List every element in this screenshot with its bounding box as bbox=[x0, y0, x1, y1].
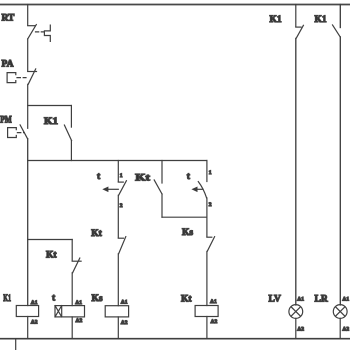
svg-text:A2: A2 bbox=[121, 320, 128, 326]
svg-text:PA: PA bbox=[2, 60, 14, 70]
contact Kt (NC) on t-coil branch bbox=[72, 258, 81, 273]
wire: seal-in branch drop bbox=[70, 106, 72, 128]
RT thermal element actuator bbox=[36, 25, 51, 41]
svg-text:t: t bbox=[97, 172, 101, 182]
svg-text:Ks: Ks bbox=[92, 294, 103, 304]
wire LR lamp to bottom rail bbox=[339, 318, 341, 338]
wire: branch drop to timed contact t (left) bbox=[117, 161, 119, 182]
contact Kt (NC) on Ks branch bbox=[118, 237, 126, 254]
PA manual actuator bbox=[7, 73, 26, 83]
contact Ks (NC) bbox=[207, 237, 215, 252]
svg-text:Ks: Ks bbox=[182, 228, 193, 238]
wire: branch to time relay coil t bbox=[28, 239, 72, 241]
wire RT to PA bbox=[27, 39, 29, 71]
svg-text:A1: A1 bbox=[121, 300, 128, 306]
svg-text:A1: A1 bbox=[75, 300, 82, 306]
wire: seal-in branch to bus bbox=[70, 141, 72, 161]
svg-text:LV: LV bbox=[269, 295, 281, 305]
wire K1 coil to bottom rail bbox=[27, 317, 29, 339]
timed contact t left (NC, delay) bbox=[102, 181, 126, 196]
wire PA to PM bbox=[27, 84, 29, 128]
contact Kt middle (NO) bbox=[154, 180, 162, 194]
wire stub below bottom rail bbox=[15, 339, 17, 350]
contact K1 seal-in (NO) bbox=[64, 125, 71, 141]
wire: LV branch from top rail bbox=[295, 5, 297, 27]
svg-text:PM: PM bbox=[0, 116, 12, 126]
wire Kt middle down bbox=[161, 194, 163, 217]
svg-text:A2: A2 bbox=[31, 319, 38, 325]
svg-text:A2: A2 bbox=[76, 318, 83, 324]
wire: left branch from top rail to RT bbox=[27, 5, 29, 26]
wire Kt contact to Ks coil bbox=[117, 254, 119, 306]
thermal contact RT (NC) bbox=[28, 25, 37, 39]
svg-text:K1: K1 bbox=[44, 117, 58, 127]
coil Kt bbox=[195, 306, 218, 317]
wire t right to Ks contact bbox=[206, 198, 208, 237]
svg-text:1: 1 bbox=[209, 170, 212, 176]
contact K1 (NC) on LV branch bbox=[296, 25, 304, 38]
K1 coil bbox=[16, 306, 38, 317]
wire Ks contact to Kt coil bbox=[206, 251, 208, 305]
wire: horizontal joining Kt branch to t branch bbox=[162, 216, 207, 218]
svg-text:A1: A1 bbox=[342, 296, 349, 302]
contact K1 (NO) on LR branch bbox=[333, 25, 341, 37]
svg-text:Kt: Kt bbox=[181, 295, 192, 305]
wire t coil to bottom rail bbox=[71, 317, 73, 339]
timed contact t right (NO, delay) bbox=[191, 182, 206, 198]
svg-text:A1: A1 bbox=[297, 296, 304, 302]
wire: LR branch from top rail bbox=[339, 5, 341, 28]
svg-text:A2: A2 bbox=[297, 326, 304, 332]
wire: branch drop to timed contact t (right) bbox=[206, 161, 208, 182]
svg-text:t: t bbox=[187, 172, 191, 182]
svg-text:A2: A2 bbox=[211, 319, 218, 325]
wire K1 contact to LR lamp bbox=[339, 37, 341, 305]
svg-text:Kt: Kt bbox=[46, 251, 57, 261]
svg-text:t: t bbox=[52, 294, 56, 304]
svg-text:A1: A1 bbox=[210, 299, 217, 305]
svg-text:Kt: Kt bbox=[135, 174, 151, 184]
bottom supply rail bbox=[0, 338, 350, 340]
lamp LR bbox=[333, 305, 347, 319]
wire drop to Kt NC contact bbox=[71, 240, 73, 261]
wire: horizontal node bus bbox=[28, 160, 207, 162]
svg-text:K1: K1 bbox=[3, 294, 11, 304]
pushbutton contact PM (NO) bbox=[20, 125, 28, 139]
svg-text:A2: A2 bbox=[342, 326, 349, 332]
wire: branch drop to contact Kt middle bbox=[161, 161, 163, 184]
wire K1 contact to LV lamp bbox=[295, 38, 297, 305]
pushbutton contact PA (NC) bbox=[28, 69, 37, 84]
wire PM down the left rail to K1 coil bbox=[27, 139, 29, 306]
wire: seal-in branch top bbox=[28, 105, 72, 107]
svg-text:K1: K1 bbox=[315, 15, 327, 25]
wire Ks coil to bottom rail bbox=[117, 317, 119, 339]
wire Kt contact to t coil bbox=[71, 273, 73, 306]
coil t (time relay) bbox=[55, 306, 85, 317]
svg-text:1: 1 bbox=[120, 173, 123, 179]
top supply rail bbox=[0, 4, 350, 6]
wire LV lamp to bottom rail bbox=[295, 318, 297, 338]
svg-text:K1: K1 bbox=[270, 15, 282, 25]
lamp LV bbox=[289, 305, 303, 319]
svg-text:A1: A1 bbox=[31, 300, 38, 306]
svg-text:2: 2 bbox=[120, 203, 123, 209]
wire Kt coil to bottom rail bbox=[206, 317, 208, 339]
PM manual actuator bbox=[8, 128, 25, 138]
svg-text:RT: RT bbox=[2, 14, 16, 24]
svg-text:Kt: Kt bbox=[91, 229, 102, 239]
svg-text:LR: LR bbox=[315, 295, 328, 305]
coil Ks bbox=[105, 306, 128, 317]
wire t left to Kt contact bbox=[117, 195, 119, 237]
svg-text:2: 2 bbox=[209, 202, 212, 208]
